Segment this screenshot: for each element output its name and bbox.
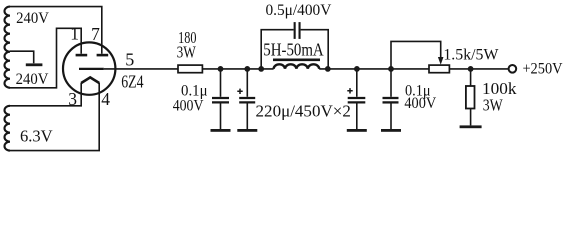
tube anode plate (pin 7) bbox=[97, 54, 109, 57]
transformer heater winding 6.3V bbox=[4, 106, 10, 151]
wire: R1 to choke bbox=[202, 68, 273, 70]
capacitor C4 lower wire bbox=[356, 104, 358, 130]
tube V1 6Z4 envelope bbox=[63, 42, 115, 94]
svg-text:220μ/450V×2: 220μ/450V×2 bbox=[256, 101, 351, 120]
svg-text:3W: 3W bbox=[483, 95, 504, 114]
svg-text:3: 3 bbox=[68, 89, 77, 109]
svg-text:6.3V: 6.3V bbox=[20, 126, 53, 145]
capacitor C1 plates bbox=[294, 22, 296, 39]
node C (choke left) bbox=[258, 66, 264, 72]
resistor R3 100k 3W bbox=[466, 86, 475, 109]
wire: 6.3V winding top to pin 3 bbox=[10, 83, 81, 106]
ground (R3) bbox=[460, 125, 482, 128]
inductor L1 choke 5H-50mA bbox=[274, 64, 320, 69]
wire: choke to R2 bbox=[319, 68, 429, 70]
node D (choke right) bbox=[325, 66, 331, 72]
ground (C5) bbox=[381, 129, 401, 132]
output terminal +250V bbox=[509, 65, 517, 73]
capacitor C2 lower wire bbox=[220, 104, 222, 130]
wire: B+ rail cathode to R1 bbox=[104, 68, 178, 70]
node E (C4) bbox=[354, 66, 360, 72]
wire: 6.3V winding bottom to pin 4 bbox=[10, 83, 99, 151]
svg-text:7: 7 bbox=[91, 24, 100, 44]
node B (C3) bbox=[244, 66, 250, 72]
svg-text:3W: 3W bbox=[177, 43, 197, 62]
svg-text:6Z4: 6Z4 bbox=[121, 71, 143, 91]
svg-text:1: 1 bbox=[70, 24, 79, 44]
capacitor C3 plates bbox=[239, 97, 255, 99]
node A (R1 output / C2) bbox=[218, 66, 224, 72]
svg-text:+250V: +250V bbox=[522, 60, 563, 77]
wire: 100k bleeder branch bbox=[470, 69, 472, 86]
tube cathode (pin 5) bbox=[79, 68, 104, 70]
svg-text:400V: 400V bbox=[173, 98, 204, 115]
ground (C3) bbox=[237, 129, 257, 132]
ground (C2) bbox=[211, 129, 231, 132]
ground (transformer center tap) bbox=[26, 63, 43, 66]
capacitor C5 plates bbox=[383, 97, 399, 99]
inductor L1 core bar bbox=[273, 58, 320, 61]
R2 tap arrowhead bbox=[438, 57, 444, 65]
capacitor C1 branch wire right bbox=[301, 30, 329, 69]
ground (C4) bbox=[347, 129, 367, 132]
capacitor C4 220u/450V wire bbox=[356, 69, 358, 97]
node F (C5 / tap) bbox=[388, 66, 394, 72]
capacitor C1 0.5u/400V branch wire left bbox=[261, 30, 293, 69]
wire: bottom 240V terminal to pin 1 bbox=[10, 28, 81, 88]
capacitor C4 plates bbox=[348, 97, 366, 99]
resistor R1 180 3W bbox=[178, 65, 202, 73]
svg-text:5: 5 bbox=[125, 49, 134, 69]
svg-text:4: 4 bbox=[101, 89, 110, 109]
capacitor C3 polarity plus bbox=[237, 89, 242, 94]
svg-text:5H-50mA: 5H-50mA bbox=[263, 39, 323, 59]
node G (100k branch) bbox=[468, 66, 474, 72]
wire: R2 to output terminal bbox=[449, 68, 508, 70]
svg-text:400V: 400V bbox=[404, 95, 436, 112]
tube heater filament bbox=[81, 77, 99, 83]
svg-text:0.5μ/400V: 0.5μ/400V bbox=[265, 2, 331, 19]
wire: top 240V terminal to pin 7 bbox=[10, 7, 102, 54]
resistor R2 1.5k/5W bbox=[429, 65, 449, 73]
capacitor C3 220u/450V wire bbox=[246, 69, 248, 97]
svg-text:240V: 240V bbox=[16, 10, 49, 27]
capacitor C5 0.1u/400V wire bbox=[390, 69, 392, 97]
capacitor C2 plates bbox=[212, 97, 229, 99]
wire: center tap to ground bbox=[10, 51, 34, 63]
wire: R2 tap feedback loop bbox=[391, 41, 441, 69]
transformer HV secondary winding (240V-0-240V) bbox=[4, 7, 10, 88]
tube anode plate (pin 1) bbox=[76, 54, 88, 57]
capacitor C5 lower wire bbox=[390, 104, 392, 130]
svg-text:240V: 240V bbox=[16, 71, 49, 88]
capacitor C4 polarity plus bbox=[347, 88, 352, 93]
wire: R3 to ground bbox=[470, 109, 472, 126]
svg-text:1.5k/5W: 1.5k/5W bbox=[443, 47, 499, 64]
capacitor C2 0.1u/400V wire bbox=[220, 69, 222, 97]
capacitor C3 lower wire bbox=[246, 104, 248, 130]
